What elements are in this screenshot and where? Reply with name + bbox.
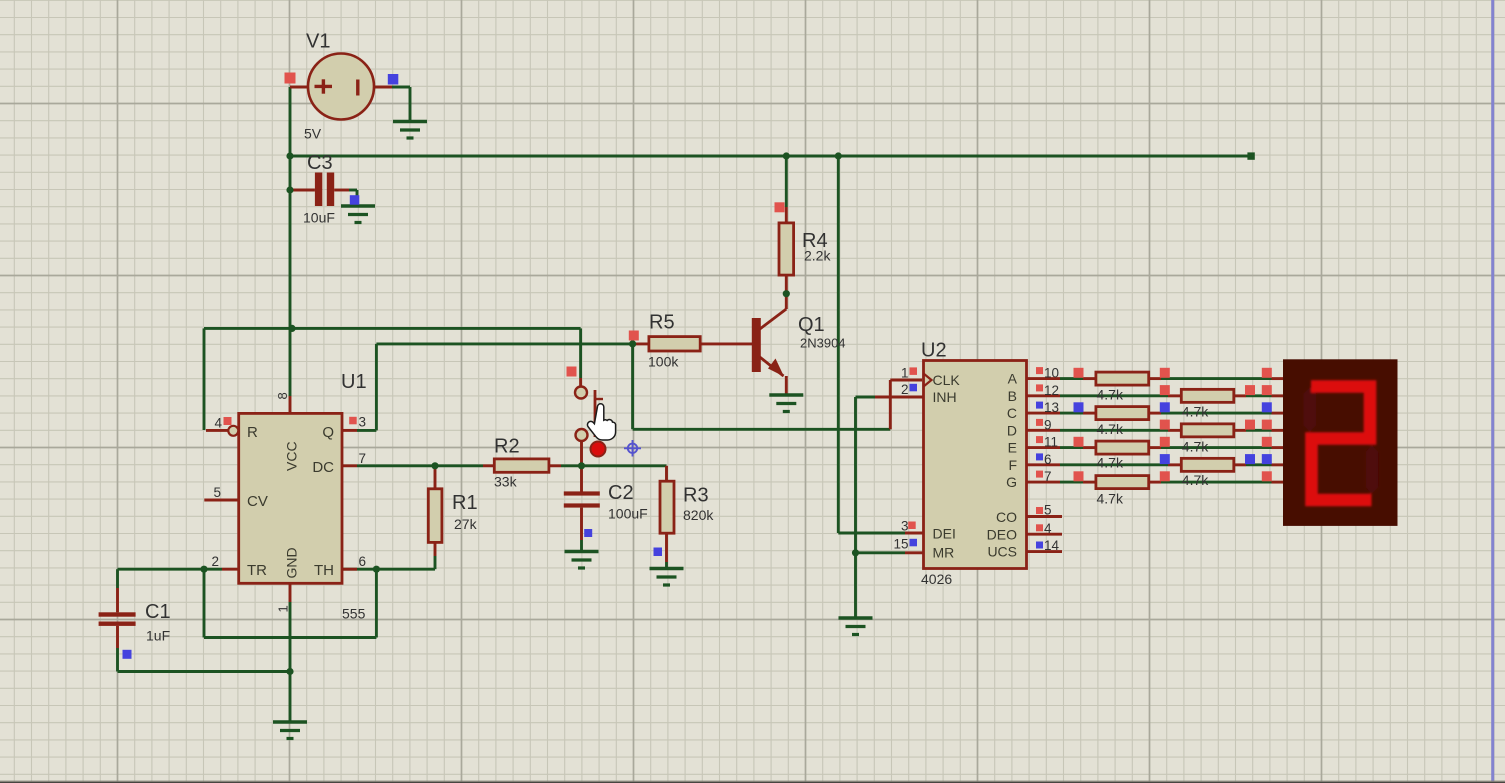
svg-text:R: R bbox=[247, 424, 258, 441]
svg-text:4: 4 bbox=[1044, 521, 1052, 536]
svg-text:7: 7 bbox=[1044, 469, 1052, 484]
svg-text:4.7k: 4.7k bbox=[1097, 421, 1124, 437]
svg-text:4.7k: 4.7k bbox=[1182, 404, 1209, 420]
svg-text:3: 3 bbox=[359, 415, 367, 430]
svg-text:2.2k: 2.2k bbox=[804, 248, 831, 264]
svg-text:MR: MR bbox=[933, 545, 955, 561]
svg-text:3: 3 bbox=[901, 519, 909, 534]
svg-text:A: A bbox=[1008, 371, 1018, 387]
svg-text:33k: 33k bbox=[494, 474, 518, 490]
svg-text:UCS: UCS bbox=[987, 544, 1017, 560]
svg-text:Q1: Q1 bbox=[798, 314, 825, 336]
svg-text:1uF: 1uF bbox=[146, 628, 170, 644]
svg-text:Q: Q bbox=[322, 424, 334, 441]
svg-text:C1: C1 bbox=[145, 601, 171, 623]
svg-text:CO: CO bbox=[996, 509, 1017, 525]
svg-text:2: 2 bbox=[211, 554, 219, 569]
svg-text:100k: 100k bbox=[648, 354, 679, 370]
svg-text:G: G bbox=[1006, 474, 1017, 490]
svg-text:V1: V1 bbox=[306, 31, 330, 53]
svg-text:TH: TH bbox=[314, 562, 334, 579]
svg-text:C3: C3 bbox=[307, 152, 333, 174]
svg-text:4: 4 bbox=[214, 416, 222, 431]
svg-text:100uF: 100uF bbox=[608, 506, 648, 522]
svg-text:27k: 27k bbox=[454, 516, 478, 532]
svg-text:1: 1 bbox=[901, 366, 909, 381]
svg-text:7: 7 bbox=[359, 451, 367, 466]
svg-text:R3: R3 bbox=[683, 485, 709, 507]
svg-text:11: 11 bbox=[1044, 435, 1058, 450]
svg-text:4.7k: 4.7k bbox=[1097, 491, 1124, 507]
svg-text:5: 5 bbox=[213, 485, 221, 500]
svg-text:4.7k: 4.7k bbox=[1182, 472, 1209, 488]
svg-text:12: 12 bbox=[1044, 383, 1059, 398]
svg-text:R2: R2 bbox=[494, 436, 520, 458]
svg-text:E: E bbox=[1008, 440, 1017, 456]
svg-text:10: 10 bbox=[1044, 366, 1059, 381]
svg-text:CLK: CLK bbox=[933, 372, 961, 388]
svg-text:5: 5 bbox=[1044, 503, 1052, 518]
svg-text:4.7k: 4.7k bbox=[1097, 455, 1124, 471]
svg-text:5V: 5V bbox=[304, 126, 322, 142]
svg-text:4026: 4026 bbox=[921, 571, 952, 587]
svg-text:U1: U1 bbox=[341, 371, 367, 393]
svg-text:820k: 820k bbox=[683, 507, 714, 523]
svg-text:2N3904: 2N3904 bbox=[800, 336, 846, 351]
svg-text:GND: GND bbox=[284, 547, 300, 578]
svg-text:9: 9 bbox=[1044, 417, 1052, 432]
svg-text:TR: TR bbox=[247, 562, 267, 579]
svg-text:4.7k: 4.7k bbox=[1182, 439, 1209, 455]
svg-text:6: 6 bbox=[359, 554, 367, 569]
svg-text:VCC: VCC bbox=[284, 441, 300, 471]
svg-text:8: 8 bbox=[275, 392, 290, 399]
svg-text:CV: CV bbox=[247, 493, 268, 510]
svg-text:10uF: 10uF bbox=[303, 210, 335, 226]
svg-text:555: 555 bbox=[342, 606, 366, 622]
svg-text:R5: R5 bbox=[649, 312, 675, 334]
svg-text:14: 14 bbox=[1044, 538, 1060, 553]
svg-text:B: B bbox=[1008, 388, 1017, 404]
svg-text:INH: INH bbox=[933, 389, 957, 405]
svg-text:15: 15 bbox=[893, 537, 908, 552]
svg-text:13: 13 bbox=[1044, 400, 1059, 415]
svg-text:1: 1 bbox=[276, 605, 291, 612]
svg-text:C2: C2 bbox=[608, 482, 634, 504]
svg-text:DC: DC bbox=[312, 459, 334, 476]
svg-text:4.7k: 4.7k bbox=[1097, 387, 1124, 403]
svg-text:U2: U2 bbox=[921, 340, 947, 362]
svg-text:R1: R1 bbox=[452, 492, 478, 514]
svg-text:F: F bbox=[1008, 457, 1017, 473]
svg-text:6: 6 bbox=[1044, 452, 1052, 467]
svg-text:DEO: DEO bbox=[987, 526, 1017, 542]
svg-text:DEI: DEI bbox=[933, 526, 956, 542]
svg-text:2: 2 bbox=[901, 382, 909, 397]
svg-text:C: C bbox=[1007, 405, 1017, 421]
svg-text:D: D bbox=[1007, 422, 1017, 438]
